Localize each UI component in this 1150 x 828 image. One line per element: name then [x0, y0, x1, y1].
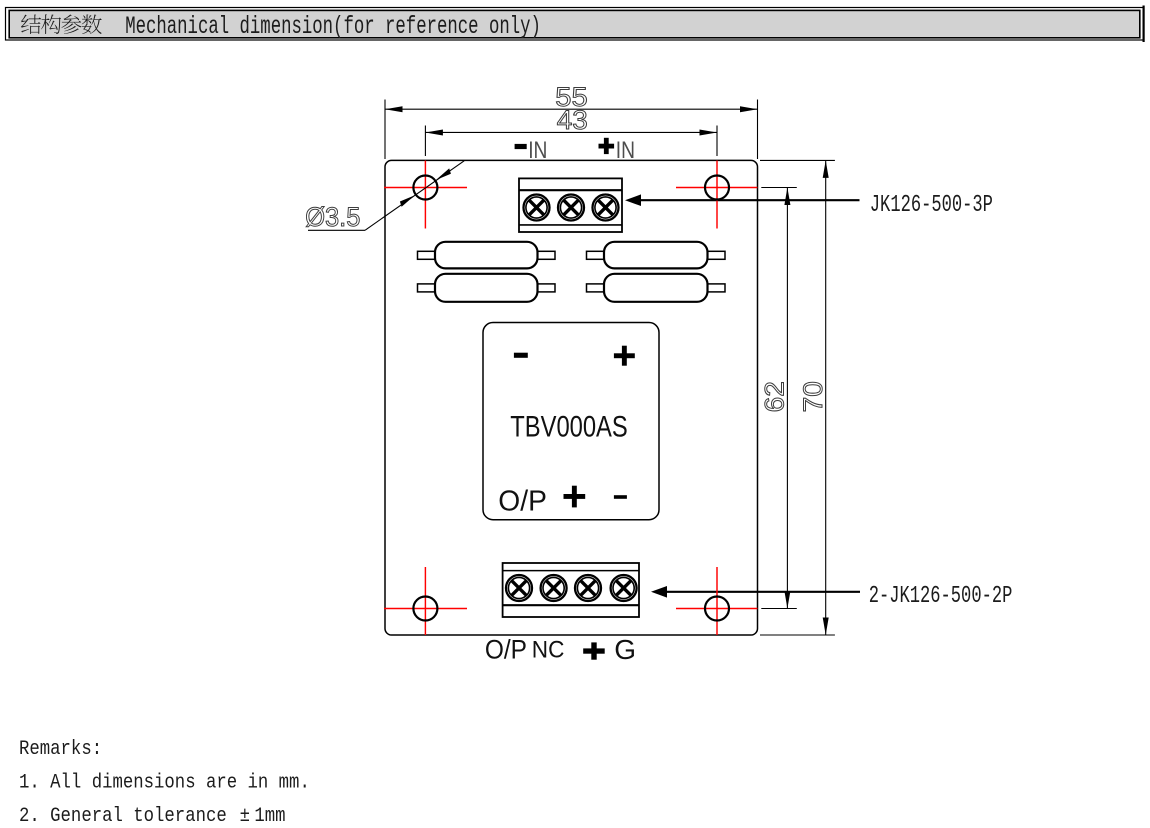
dim 43 arrowheads	[425, 130, 717, 136]
dim 43 extension lines	[425, 126, 717, 157]
box minus bottom	[614, 495, 627, 499]
J1 screw 1	[524, 195, 550, 221]
dim 55 arrowheads	[385, 106, 758, 112]
svg-text:1. All dimensions are in mm.: 1. All dimensions are in mm.	[19, 770, 310, 794]
mounting hole top-right	[705, 176, 729, 200]
dim 55 extension lines	[385, 100, 758, 160]
component row1 right module	[604, 242, 708, 269]
J2 screw 4	[611, 575, 637, 601]
box minus top	[514, 353, 528, 358]
header title char 数	[82, 14, 102, 34]
dim 62 arrowheads	[784, 188, 790, 609]
terminal block J1 top 3P body	[519, 178, 622, 232]
mounting hole bottom-left	[413, 597, 437, 621]
svg-text:Ø3.5: Ø3.5	[305, 202, 360, 232]
mounting hole top-left crosshair	[384, 161, 467, 229]
dim 70 dimension line	[825, 160, 827, 635]
svg-text:TBV000AS: TBV000AS	[510, 411, 628, 444]
header title char 结	[21, 15, 41, 34]
header title char 构	[41, 14, 61, 34]
svg-text:2. General tolerance ±1mm: 2. General tolerance ±1mm	[19, 804, 286, 828]
J2 screw 1	[506, 575, 532, 601]
svg-text:Remarks:: Remarks:	[19, 737, 102, 761]
label minus IN	[515, 144, 527, 149]
diameter leader landing	[308, 229, 365, 231]
header outer frame	[6, 6, 1144, 43]
svg-text:IN: IN	[528, 137, 547, 164]
svg-text:G: G	[614, 634, 636, 665]
box plus bottom	[564, 486, 586, 508]
svg-text:2-JK126-500-2P: 2-JK126-500-2P	[869, 583, 1013, 609]
diameter leader arrowheads	[400, 168, 451, 206]
label plus IN	[599, 138, 615, 154]
module body outline	[385, 160, 758, 635]
J2 screw 2	[541, 575, 567, 601]
leader arrow to J2	[651, 586, 860, 598]
dim 43 dimension line	[425, 131, 717, 133]
mounting hole bottom-right crosshair	[676, 567, 757, 635]
svg-text:43: 43	[557, 105, 588, 135]
svg-text:IN: IN	[616, 137, 635, 164]
dim 55 dimension line	[385, 108, 758, 110]
bottom pin label plus	[583, 642, 605, 659]
J2 screw 3	[575, 575, 601, 601]
leader arrow to J1	[625, 194, 860, 206]
component row2 left module	[435, 274, 538, 302]
mounting hole top-right crosshair	[676, 161, 757, 229]
svg-text:O/P: O/P	[485, 633, 527, 664]
header title char 参	[61, 15, 81, 35]
terminal block J2 bottom 4P body	[503, 563, 639, 617]
row1 left module leads	[418, 251, 556, 259]
svg-text:62: 62	[760, 381, 790, 412]
mounting hole top-left	[413, 176, 437, 200]
svg-text:Mechanical dimension(for refer: Mechanical dimension(for reference only)	[125, 13, 541, 41]
row2 right module leads	[587, 284, 726, 292]
diameter leader line	[365, 161, 464, 231]
svg-text:70: 70	[798, 381, 828, 412]
header inner bar	[9, 10, 1140, 37]
component row2 right module	[604, 274, 708, 302]
svg-text:JK126-500-3P: JK126-500-3P	[870, 193, 993, 219]
dim 70 extension line bottom	[760, 634, 835, 636]
dim 62 extension line top	[761, 187, 797, 189]
J1 screw 2	[558, 195, 584, 221]
mounting hole bottom-right	[705, 597, 729, 621]
J1 screw 3	[593, 195, 619, 221]
box plus top	[614, 346, 635, 366]
component row1 left module	[435, 242, 538, 269]
mounting hole bottom-left crosshair	[384, 567, 467, 635]
row2 left module leads	[418, 284, 556, 292]
center label box	[483, 323, 659, 520]
dim 70 arrowheads	[823, 160, 829, 635]
svg-text:NC: NC	[532, 636, 565, 663]
dim 62 dimension line	[786, 188, 788, 609]
dim 70 extension line top	[760, 159, 835, 161]
row1 right module leads	[587, 251, 726, 259]
dim 62 extension line bottom	[761, 608, 797, 610]
svg-text:O/P: O/P	[498, 485, 547, 517]
